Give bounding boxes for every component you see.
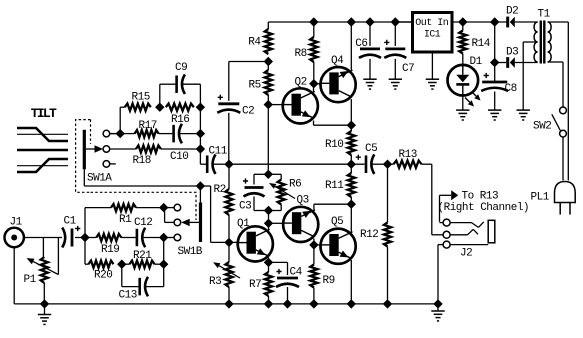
- svg-text:R9: R9: [323, 275, 335, 287]
- node Q1 emitter: [265, 258, 273, 266]
- wire Q5 base: [314, 244, 320, 246]
- T1 label: [538, 9, 551, 21]
- svg-text:Q4: Q4: [331, 55, 344, 67]
- jack J2 contact 3: [443, 241, 450, 248]
- svg-text:C12: C12: [134, 217, 152, 229]
- wire R17 to C10: [159, 133, 173, 135]
- capacitor C8: [481, 73, 508, 91]
- Q5 label: [331, 216, 343, 228]
- R4 label: [248, 37, 261, 49]
- node rail Q4em: [347, 18, 355, 26]
- node C4 ground: [284, 300, 292, 308]
- svg-text:P1: P1: [24, 274, 37, 286]
- svg-text:C8: C8: [505, 83, 517, 95]
- PL1 label: [531, 191, 550, 203]
- R18 label: [133, 155, 151, 167]
- wire R19 to C12: [121, 237, 135, 239]
- To R13 label: [462, 191, 499, 203]
- svg-text:R8: R8: [295, 48, 307, 60]
- resistor R11: [348, 164, 355, 204]
- node R21 right: [160, 260, 168, 268]
- C4 label: [290, 266, 303, 278]
- wire C1 to node: [75, 237, 85, 239]
- svg-text:T1: T1: [538, 9, 551, 21]
- node bus/R16: [196, 103, 204, 111]
- C7 label: [402, 63, 414, 75]
- R20 label: [94, 270, 112, 282]
- jack J2 contact 2: [443, 231, 450, 238]
- svg-text:R16: R16: [171, 114, 189, 126]
- C6 ground: [363, 59, 376, 89]
- LED D1 arrows: [465, 92, 481, 107]
- J2 label: [460, 248, 472, 260]
- svg-text:R2: R2: [214, 184, 226, 196]
- wire SW2 to plug: [562, 137, 564, 181]
- node R7 ground: [265, 300, 273, 308]
- node R17/R15: [116, 130, 124, 138]
- switch SW1A gang dashed box: [76, 120, 91, 193]
- ground symbol main: [38, 304, 51, 325]
- wire R19 row: [85, 237, 96, 239]
- C5 label: [365, 143, 377, 155]
- svg-text:C13: C13: [119, 289, 137, 301]
- transformer T1 core: [540, 21, 546, 64]
- wire bus down to C11: [200, 107, 206, 164]
- node bus/R18: [196, 145, 204, 153]
- resistor R4: [265, 22, 272, 54]
- resistor R1: [111, 204, 136, 211]
- svg-text:C6: C6: [355, 38, 367, 50]
- svg-text:R13: R13: [399, 149, 417, 161]
- T1 center tap: [517, 42, 538, 120]
- mains plug PL1: [555, 182, 576, 215]
- wire Q4 base: [314, 83, 321, 85]
- svg-text:SW2: SW2: [533, 121, 551, 133]
- R11 label: [325, 180, 344, 192]
- wire J1 to C1: [24, 237, 62, 239]
- resistor R21: [122, 261, 164, 268]
- R8 label: [295, 48, 307, 60]
- svg-text:R1: R1: [119, 214, 132, 226]
- C12 label: [134, 217, 152, 229]
- node R12 ground: [384, 300, 392, 308]
- wire Q4 collector: [350, 99, 352, 125]
- SW1A label: [87, 172, 112, 184]
- wire contact2 to R18: [110, 148, 136, 150]
- wire Q3 collector: [313, 239, 315, 245]
- switch SW1A wiper arrow: [86, 145, 103, 153]
- svg-text:C11: C11: [209, 146, 228, 158]
- wire C13 loop left: [122, 264, 139, 286]
- R21 label: [133, 250, 152, 262]
- wire node to R6: [268, 174, 281, 179]
- jack J2 ring switch: [450, 229, 478, 235]
- wire contact node to wiper row: [164, 208, 166, 223]
- wire R17 row: [120, 133, 134, 135]
- Q1 label: [237, 218, 250, 230]
- resistor R8: [310, 22, 317, 84]
- node R8/Q2/Q4 base: [310, 80, 318, 88]
- switch SW1B contact 2: [165, 219, 181, 226]
- node J2 ground: [434, 300, 442, 308]
- IC1 ground: [426, 52, 439, 89]
- resistor R15: [125, 104, 151, 111]
- wire C9 riser: [160, 84, 176, 107]
- svg-text:C7: C7: [402, 63, 414, 75]
- tilt symbol low-cut curve: [17, 159, 68, 172]
- node bus/C10: [196, 130, 204, 138]
- R16 label: [171, 114, 189, 126]
- wire IC1 in rail: [454, 21, 507, 23]
- wire output node row: [229, 163, 351, 165]
- capacitor C3: [243, 178, 265, 196]
- node C12/SW1B c3: [160, 234, 168, 242]
- svg-text:R20: R20: [94, 270, 112, 282]
- resistor R18: [136, 145, 161, 152]
- resistor R17: [135, 130, 159, 137]
- switch SW1A contact 2: [103, 146, 110, 153]
- C1 label: [64, 216, 77, 228]
- D1 label: [470, 56, 483, 68]
- transistor Q2: [283, 88, 318, 123]
- R19 label: [101, 244, 119, 256]
- node C11/C2/R2: [225, 160, 233, 168]
- wire Q5 emitter to bus: [350, 260, 352, 304]
- wire R1 to contact node: [136, 207, 164, 209]
- svg-text:R21: R21: [133, 250, 152, 262]
- svg-text:R14: R14: [472, 38, 491, 50]
- node Q2em/Q4col/R10: [347, 121, 355, 129]
- R15 label: [132, 92, 150, 104]
- node Q1 base: [225, 238, 233, 246]
- svg-text:Q5: Q5: [331, 216, 343, 228]
- ground symbol J2: [431, 304, 444, 321]
- node P1 ground: [41, 300, 49, 308]
- svg-text:D2: D2: [506, 5, 518, 17]
- R6 label: [289, 179, 301, 191]
- resistor R14: [459, 22, 466, 54]
- capacitor C7: [384, 22, 406, 58]
- trimmer R3: [225, 242, 232, 304]
- node rail D2 branch: [491, 18, 499, 26]
- svg-text:C1: C1: [64, 216, 77, 228]
- capacitor C13: [140, 277, 148, 297]
- D1 ground: [456, 95, 469, 120]
- svg-text:TILT: TILT: [31, 106, 57, 121]
- resistor R16: [166, 104, 194, 111]
- capacitor C4: [276, 269, 299, 287]
- wire T1 sec bottom to SW2: [548, 62, 563, 107]
- resistor R2: [225, 164, 232, 242]
- wire C12 to contact node: [143, 237, 164, 239]
- svg-text:R19: R19: [101, 244, 119, 256]
- jack J2 contact 1: [440, 219, 451, 226]
- svg-text:R7: R7: [249, 279, 261, 291]
- diode D2: [506, 17, 537, 28]
- svg-text:R12: R12: [360, 229, 378, 241]
- Q2 label: [295, 77, 307, 89]
- R14 label: [472, 38, 491, 50]
- node C3/R6 bottom: [265, 207, 273, 215]
- To R13 arrow: [440, 190, 459, 222]
- wire contact3-R21 link: [163, 238, 165, 265]
- R9 label: [323, 275, 335, 287]
- C3 label: [239, 201, 251, 213]
- svg-text:R15: R15: [132, 92, 150, 104]
- wire J1 tap to P1: [42, 238, 44, 258]
- node R11/Q3em/Q5col: [347, 200, 355, 208]
- wire C3 to bottom node: [254, 197, 269, 211]
- D3 label: [506, 46, 518, 58]
- jack J1: [5, 228, 24, 247]
- transistor Q3: [283, 207, 318, 242]
- node R15/R16/C9: [156, 103, 164, 111]
- capacitor C1: [62, 226, 80, 248]
- wire C13 loop right: [146, 264, 164, 286]
- switch SW1B contact 3: [167, 234, 181, 241]
- jack J2 tip switch: [450, 222, 484, 228]
- svg-text:R17: R17: [139, 120, 157, 132]
- svg-text:R4: R4: [248, 37, 261, 49]
- switch SW1B wiper arrow: [181, 219, 199, 227]
- node C3/R6 top: [264, 170, 272, 178]
- R7 label: [249, 279, 261, 291]
- wire Q1 emitter: [268, 258, 270, 263]
- svg-text:To R13: To R13: [462, 191, 499, 203]
- SW1B label: [178, 246, 203, 258]
- R10 label: [325, 139, 343, 151]
- wire T1 sec top: [548, 22, 569, 181]
- wire Q2 collector: [313, 84, 315, 92]
- capacitor C9: [177, 74, 185, 94]
- wire SW1 common to Q1 base: [200, 186, 229, 242]
- SW2 label: [533, 121, 551, 133]
- svg-text:SW1A: SW1A: [87, 172, 112, 184]
- capacitor C11: [207, 154, 215, 174]
- C7 ground: [389, 59, 402, 89]
- switch SW1A contact 1: [103, 130, 116, 137]
- switch SW1A bar: [83, 130, 86, 170]
- R3 wiper arrow: [213, 262, 240, 278]
- transistor Q4: [321, 67, 356, 102]
- node R4/R5: [264, 58, 272, 66]
- svg-text:C10: C10: [170, 151, 188, 163]
- regulator IC1: [413, 13, 453, 53]
- wire SW1A common to bus: [84, 169, 200, 186]
- node Q3col/Q5base/R9: [310, 241, 318, 249]
- R12 label: [360, 229, 378, 241]
- gang dashed link SW1A to SW1B: [91, 192, 197, 220]
- resistor R9: [310, 245, 317, 304]
- transistor Q1: [238, 226, 273, 261]
- svg-text:R10: R10: [325, 139, 343, 151]
- svg-text:IC1: IC1: [424, 29, 441, 40]
- capacitor C5: [351, 154, 374, 174]
- node rail R8: [310, 18, 318, 26]
- C8 ground: [488, 92, 501, 121]
- node Q1 collector / Q3 base: [265, 219, 273, 227]
- resistor R19: [96, 234, 121, 241]
- P1 wiper arrow: [27, 258, 59, 275]
- wire C5 to node: [372, 163, 388, 165]
- node R9 ground: [310, 300, 318, 308]
- wire C10 to bus: [179, 133, 200, 135]
- D2 label: [506, 5, 518, 17]
- C13 label: [119, 289, 137, 301]
- node rail C6: [366, 18, 374, 26]
- switch SW1B bar: [199, 186, 202, 242]
- wire J1 shell to ground bus: [14, 247, 44, 304]
- wire Q3 emitter: [314, 204, 351, 210]
- switch SW1A contact 3: [103, 161, 116, 168]
- jack J2 sleeve: [450, 220, 495, 244]
- svg-text:R3: R3: [209, 276, 221, 288]
- resistor R5: [265, 62, 272, 105]
- J1 label: [10, 217, 23, 229]
- node C1/R1/R19/R20: [81, 234, 89, 242]
- ground bus: [45, 303, 439, 305]
- node D3 junction: [491, 59, 499, 67]
- node R10/C5/R11: [347, 160, 355, 168]
- wire Q1 collector: [268, 223, 270, 229]
- wire Q1 base stub: [229, 241, 238, 243]
- P1 label: [24, 274, 37, 286]
- capacitor C10: [174, 124, 182, 144]
- node Q5 emitter ground: [347, 300, 355, 308]
- R3 label: [209, 276, 221, 288]
- transistor Q5: [321, 229, 356, 264]
- capacitor C6: [359, 22, 381, 58]
- switch SW1B contact 1: [167, 204, 181, 211]
- wire node to C3: [254, 174, 268, 184]
- svg-text:R6: R6: [289, 179, 301, 191]
- svg-text:R18: R18: [133, 155, 151, 167]
- svg-text:R11: R11: [325, 180, 344, 192]
- node SW1A bus / SW1B: [196, 182, 204, 190]
- C9 label: [175, 62, 187, 74]
- R5 label: [249, 80, 261, 92]
- svg-text:PL1: PL1: [531, 191, 550, 203]
- wire C4 to bus: [287, 287, 289, 304]
- R13 label: [399, 149, 417, 161]
- transformer T1 secondary winding: [548, 22, 552, 62]
- R17 label: [139, 120, 157, 132]
- wire Q3 base: [269, 222, 283, 224]
- resistor R10: [348, 125, 355, 164]
- R6 wiper arrow: [269, 183, 295, 199]
- wire C4 branch: [269, 262, 288, 275]
- svg-text:Q2: Q2: [295, 77, 307, 89]
- C2 label: [242, 106, 254, 118]
- svg-text:C3: C3: [239, 201, 251, 213]
- wire IC1 out rail: [395, 21, 411, 23]
- node R5/Q2 base: [264, 101, 272, 109]
- svg-text:SW1B: SW1B: [178, 246, 203, 258]
- Q3 label: [297, 195, 309, 207]
- wire C11 to node: [213, 163, 229, 165]
- wire J2 sleeve to ground: [438, 245, 443, 304]
- wire C2 to output node: [228, 113, 230, 164]
- transformer T1 primary winding: [534, 22, 538, 62]
- C11 label: [209, 146, 228, 158]
- node C5/R13/R12: [384, 160, 392, 168]
- svg-text:Q3: Q3: [297, 195, 309, 207]
- resistor R13: [388, 161, 432, 168]
- wire C1 left riser: [57, 238, 59, 275]
- wire node up to R1 row: [85, 208, 111, 238]
- resistor R7: [265, 262, 272, 304]
- R2 label: [214, 184, 226, 196]
- resistor R12: [384, 164, 391, 304]
- node rail C7: [391, 18, 399, 26]
- svg-text:C4: C4: [290, 266, 303, 278]
- svg-text:R5: R5: [249, 80, 261, 92]
- wire C2 branch: [229, 62, 268, 101]
- tilt symbol flat curve: [17, 149, 68, 152]
- wire Q1col to C3R6 node: [268, 211, 270, 224]
- wire R20 drop: [85, 238, 89, 265]
- svg-text:(Right Channel): (Right Channel): [438, 202, 530, 214]
- switch SW2: [552, 107, 567, 137]
- wire Q2 emitter: [314, 121, 352, 126]
- potentiometer P1: [41, 257, 48, 304]
- C10 label: [170, 151, 188, 163]
- tilt label: [31, 106, 57, 121]
- diode D3: [495, 57, 538, 68]
- Right Channel label: [438, 202, 530, 214]
- wire R13 down to J2: [432, 164, 443, 235]
- C8 label: [505, 83, 517, 95]
- Q4 label: [331, 55, 344, 67]
- svg-text:J2: J2: [460, 248, 472, 260]
- svg-text:C2: C2: [242, 106, 254, 118]
- wire D2 branch down: [494, 22, 496, 81]
- svg-text:C5: C5: [365, 143, 377, 155]
- trimmer R6: [269, 180, 285, 211]
- capacitor C12: [137, 228, 145, 248]
- wire Q4 emitter to rail: [350, 22, 352, 70]
- wire R5 node down to C3R6 node: [267, 105, 269, 175]
- node R1/SW1B c1: [160, 204, 168, 212]
- tilt symbol high-cut curve: [17, 128, 68, 141]
- svg-text:Out In: Out In: [415, 18, 449, 29]
- wire Q5 collector: [350, 204, 352, 232]
- node R3 ground: [225, 300, 233, 308]
- node R20/R21/C13: [118, 260, 126, 268]
- wire R18 to bus: [161, 148, 201, 150]
- svg-text:J1: J1: [10, 217, 23, 229]
- wire node up to R15 row: [120, 107, 125, 133]
- wire contact1 to node: [110, 133, 121, 135]
- positive rail: [268, 21, 411, 23]
- node rail R14: [459, 18, 467, 26]
- resistor R20: [89, 261, 114, 268]
- wire C9 to bus: [182, 84, 200, 107]
- capacitor C2: [217, 95, 240, 113]
- svg-text:C9: C9: [175, 62, 187, 74]
- svg-text:D3: D3: [506, 46, 518, 58]
- LED D1: [448, 54, 479, 96]
- C6 label: [355, 38, 367, 50]
- R1 label: [119, 214, 132, 226]
- wire Q2 base: [268, 104, 282, 106]
